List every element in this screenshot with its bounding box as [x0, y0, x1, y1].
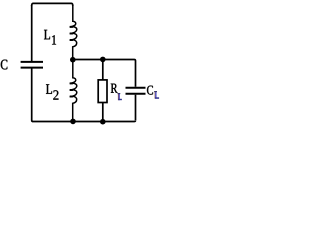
- wire bottom rail: [33, 120, 136, 121]
- label CL letter C: [147, 86, 153, 95]
- wire CL branch lower: [135, 95, 137, 120]
- label L1 subscript 1: [52, 35, 56, 44]
- wire RL branch lower: [102, 103, 104, 122]
- label C: [1, 60, 8, 70]
- wire left branch upper: [31, 5, 33, 61]
- label CL subscript L: [154, 91, 159, 99]
- wire left branch lower: [32, 69, 33, 122]
- capacitor C top plate: [21, 61, 43, 63]
- node RL bottom junction dot: [100, 119, 106, 125]
- label RL subscript L: [117, 93, 121, 100]
- inductor L1: [70, 5, 77, 60]
- node L2 bottom junction dot: [70, 119, 76, 125]
- capacitor CL bottom plate: [126, 93, 146, 95]
- capacitor CL top plate: [126, 87, 146, 89]
- label L2 subscript 2: [53, 90, 58, 99]
- node tap junction dot: [70, 57, 76, 63]
- label RL letter R: [111, 84, 118, 93]
- node RL top junction dot: [100, 57, 106, 63]
- label L2 letter L: [46, 84, 52, 93]
- inductor L2: [70, 60, 77, 122]
- wire top rail: [32, 3, 73, 6]
- capacitor C bottom plate: [21, 67, 43, 69]
- wire middle rail: [73, 60, 136, 87]
- label L1 letter L: [44, 30, 50, 39]
- resistor RL box: [98, 80, 107, 103]
- wire RL branch upper: [102, 60, 104, 80]
